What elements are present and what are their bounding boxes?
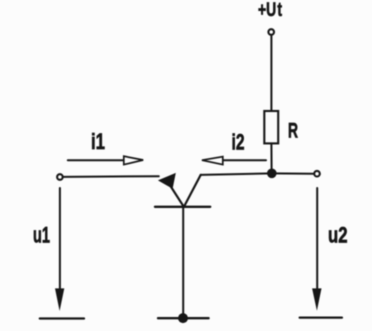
svg-text:i1: i1 [91, 129, 105, 154]
svg-text:R: R [288, 119, 298, 142]
svg-text:u1: u1 [33, 222, 50, 247]
svg-text:+U t: +U t [258, 0, 282, 21]
svg-text:i2: i2 [232, 130, 245, 155]
svg-text:u2: u2 [328, 222, 348, 247]
